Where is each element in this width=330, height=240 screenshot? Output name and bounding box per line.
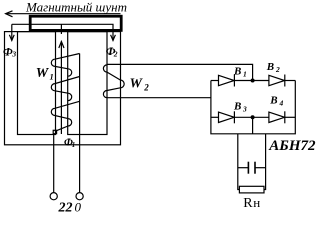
svg-text:22: 22	[58, 201, 73, 216]
svg-text:1: 1	[50, 72, 54, 82]
svg-text:W: W	[36, 66, 50, 81]
wire W2 top to bridge	[107, 64, 253, 80]
svg-text:0: 0	[75, 200, 82, 215]
node junction dot B3-B4	[251, 115, 255, 119]
svg-text:1: 1	[72, 141, 76, 149]
svg-text:В: В	[266, 61, 274, 73]
svg-text:2: 2	[143, 82, 149, 92]
svg-text:3: 3	[11, 50, 16, 59]
node terminal right	[76, 193, 83, 200]
rectifier block АБН72 box	[211, 81, 295, 134]
svg-text:3: 3	[242, 105, 247, 114]
svg-text:В: В	[269, 95, 277, 107]
magnetic shunt bar	[30, 16, 121, 30]
svg-text:R: R	[243, 196, 253, 211]
wire lead left to terminal	[53, 134, 55, 193]
wire rail1	[211, 80, 219, 82]
node arrowhead down Ф2	[111, 35, 116, 41]
svg-text:В: В	[233, 66, 241, 78]
wire flux Ф1 stub through shunt	[60, 24, 62, 34]
wire output lead left	[238, 134, 240, 190]
wire top flux line with left arrow	[6, 13, 121, 15]
node arrowhead down Ф3	[9, 35, 14, 41]
resistor Rн	[239, 186, 264, 193]
core window right	[68, 32, 107, 135]
svg-text:4: 4	[279, 99, 284, 108]
wire junction to box bottom	[252, 117, 254, 134]
wire rail2 right	[285, 116, 296, 118]
svg-text:В: В	[233, 101, 241, 113]
wire flux path through shunt	[12, 24, 113, 40]
winding W1	[79, 54, 81, 193]
svg-text:1: 1	[243, 70, 247, 79]
node arrowhead left	[6, 11, 13, 17]
winding W2	[103, 65, 120, 80]
diode B1	[219, 75, 235, 85]
wire rail1 right	[285, 80, 296, 82]
wire rail1 mid	[234, 80, 269, 82]
core outer rectangle	[5, 32, 121, 145]
svg-text:2: 2	[275, 65, 280, 74]
node terminal left	[50, 193, 57, 200]
node coil end square	[53, 130, 56, 133]
svg-text:АБН72: АБН72	[268, 138, 316, 154]
wire W2 bottom to bridge	[107, 97, 211, 99]
svg-text:2: 2	[113, 49, 118, 58]
diode B3	[219, 112, 235, 122]
svg-text:н: н	[253, 195, 260, 210]
wire output lead right	[264, 134, 266, 190]
wire rail2 mid	[234, 116, 269, 118]
wire left flux drop	[11, 24, 13, 40]
node junction dot B1-B2	[251, 79, 255, 83]
diode B4	[269, 112, 285, 122]
capacitor C	[238, 167, 249, 169]
svg-text:W: W	[130, 77, 144, 92]
wire rail2	[211, 116, 219, 118]
core window left	[18, 32, 56, 135]
diode B2	[269, 75, 285, 85]
svg-text:Магнитный шунт: Магнитный шунт	[25, 0, 127, 15]
node flux arrow Ф1 up	[60, 42, 62, 135]
